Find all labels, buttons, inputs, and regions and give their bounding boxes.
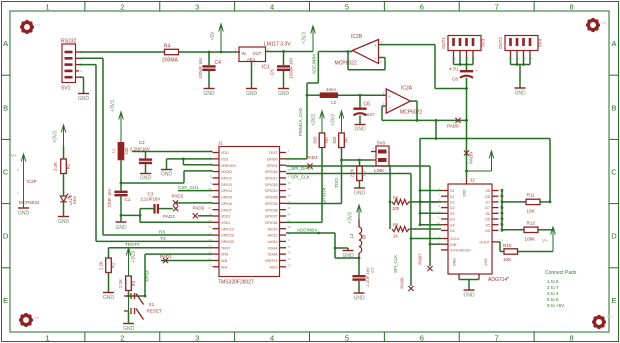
svg-text:TX: TX [160,236,166,241]
svg-text:GND: GND [453,258,457,266]
svg-text:11: 11 [437,216,440,220]
wire S1 to GND [128,311,130,323]
svg-text:22UF 16V: 22UF 16V [107,188,112,207]
svg-text:R6: R6 [344,137,349,143]
inductor L1 220 (ferrite) [112,142,129,160]
svg-text:1: 1 [411,96,413,100]
svg-text:TMS320F28027: TMS320F28027 [218,280,254,286]
svg-text:GND: GND [354,127,366,133]
svg-text:+3V3: +3V3 [302,32,308,44]
wire SPI_CLK to J2 SCLK [410,174,441,240]
capacitor C1 22UF 16V [107,188,131,207]
svg-text:CS#_CH1: CS#_CH1 [178,185,199,190]
svg-text:R5: R5 [324,137,329,143]
svg-text:GND: GND [278,91,290,97]
svg-text:−: − [374,56,377,61]
svg-text:13: 13 [208,206,212,210]
wire R7 to GND [359,181,361,188]
wire +5V rail to IC1 [179,51,241,54]
resistor R10 10K [499,242,554,262]
wire C2 leads [145,152,147,174]
wire L1 to C1 [120,160,123,190]
wire L2 to IC2A input [338,94,386,97]
svg-text:5: 5 [345,333,349,342]
svg-text:VSS: VSS [221,157,229,161]
svg-text:7: 7 [351,45,353,49]
svg-text:1: 1 [45,2,49,11]
capacitor C5 100UF 16V [270,57,294,78]
svg-text:GND: GND [514,91,526,97]
wire R1 to LED1 [63,146,65,196]
wire C7 to GND [358,281,360,293]
svg-text:SV1: SV1 [61,86,71,92]
wire R8/R9 left vertical [389,165,392,229]
svg-text:H3: H3 [607,314,613,319]
svg-text:C1: C1 [125,197,131,202]
note Connect Pads [545,270,577,308]
wire IC2A out to bus [435,120,437,138]
svg-text:R11: R11 [527,193,536,198]
wire VSS1 [140,221,213,223]
svg-text:LM117 3.3V: LM117 3.3V [264,41,291,47]
svg-text:TRST#: TRST# [125,242,140,247]
svg-text:GPIO16: GPIO16 [265,170,278,174]
wire net ADCINB4 vertical [307,52,318,84]
ground GND at R2 [103,293,115,302]
svg-text:2.2K: 2.2K [99,261,104,270]
svg-text:VDD1: VDD1 [221,215,230,219]
svg-text:1mH: 1mH [326,87,336,92]
svg-text:VDD: VDD [463,189,467,197]
ground GND at IC1 [246,89,258,98]
svg-text:H4: H4 [34,315,40,320]
svg-text:S8: S8 [485,189,490,193]
svg-text:GPIO37: GPIO37 [265,215,278,219]
pad PAD2 [172,193,184,205]
svg-text:+3V3: +3V3 [53,131,59,143]
wire TX vertical [79,65,96,242]
svg-text:B: B [3,103,8,112]
svg-text:SPI_CLK: SPI_CLK [291,175,311,180]
supply +3V3 at R5 [311,111,324,133]
ground GND at C6 [354,125,366,133]
svg-text:IC2A: IC2A [401,86,413,92]
svg-text:5 to 6: 5 to 6 [547,297,559,302]
svg-text:VREFHI: VREFHI [265,259,278,263]
voltage regulator IC1 LM117 3.3V [235,41,292,70]
svg-text:+3V3: +3V3 [110,100,116,112]
svg-text:GND: GND [203,91,215,97]
wire IC1 ADJ to GND [251,62,253,89]
svg-text:68: 68 [362,234,367,239]
svg-text:B: B [611,103,616,112]
resistor R6 820 [332,133,349,148]
svg-text:LINK: LINK [374,168,385,173]
svg-text:48: 48 [288,168,292,172]
wire J2 right pin bus [501,189,504,232]
svg-text:GPIO18: GPIO18 [265,183,278,187]
svg-text:6: 6 [420,2,424,11]
supply +3V3 at R1 [53,125,66,146]
svg-text:1K: 1K [393,234,398,239]
mounting hole H3 [592,314,613,329]
svg-text:AIO14: AIO14 [268,227,278,231]
wire to L2 [306,94,320,97]
wire VSS [167,158,213,161]
svg-text:820: 820 [332,136,337,144]
svg-text:8: 8 [569,333,573,342]
svg-text:OUT1: OUT1 [441,37,446,49]
wire C6 leads [359,95,361,124]
svg-text:4: 4 [270,2,274,11]
wire SV1.5 to GND [79,77,84,93]
svg-text:RESET: RESET [147,309,163,314]
svg-text:ADCINB4: ADCINB4 [297,228,317,233]
wire net XRS# [145,254,213,296]
svg-text:46: 46 [288,181,292,185]
svg-text:GPIO7: GPIO7 [221,208,232,212]
svg-text:GND: GND [161,172,173,178]
wire filter node [334,233,361,259]
wire OUT1 node vertical [466,78,468,178]
capacitor C7 2.2UF 16V [352,267,375,287]
svg-text:D8: D8 [485,195,490,199]
wire VDD1 pad6 [198,215,213,217]
svg-text:Connect Pads: Connect Pads [545,270,577,276]
svg-text:GND: GND [123,326,135,332]
svg-text:100: 100 [392,206,400,211]
wire IC2B feedback [348,52,385,70]
svg-text:0.047: 0.047 [363,112,375,117]
resistor R5 820 [313,133,330,148]
supply +3V3 at R3 [126,248,137,276]
svg-text:8: 8 [17,168,19,172]
svg-text:ADJ: ADJ [247,57,255,62]
ground GND at SV1 [78,94,90,103]
supply +3V3 at L1 [110,100,124,142]
wire C4 leads [208,52,210,88]
svg-text:V+: V+ [11,153,17,158]
svg-text:35: 35 [288,251,292,255]
svg-text:23: 23 [500,238,504,242]
svg-text:PAD4: PAD4 [306,155,318,160]
svg-text:GPIO5: GPIO5 [221,196,232,200]
svg-text:C: C [611,168,617,177]
svg-text:E: E [3,296,8,305]
svg-text:100K: 100K [525,237,537,242]
connector SV1 (RS232) [61,39,82,92]
svg-text:16: 16 [208,225,212,229]
svg-text:13: 13 [437,227,441,231]
wire SV4 pins join [511,57,531,66]
svg-text:3: 3 [235,48,237,52]
svg-text:2.2K: 2.2K [53,162,58,171]
mounting hole H1 [20,20,41,34]
svg-text:12: 12 [437,221,441,225]
resistor R4 200MA [162,44,179,64]
svg-text:SCLK: SCLK [450,237,460,241]
wire bus to J2 S2 [419,201,441,204]
svg-text:A06: A06 [221,259,227,263]
svg-text:GND: GND [103,295,115,301]
svg-text:R10: R10 [503,243,512,248]
svg-text:SV3: SV3 [481,38,486,47]
wire IC2B output to ADCINB4 [319,50,353,53]
supply +3V3 at L3 [348,205,362,224]
svg-text:37: 37 [288,238,292,242]
svg-text:3 to 4: 3 to 4 [547,291,559,296]
supply V+ at J2 [465,151,494,172]
svg-text:AIO10: AIO10 [268,240,278,244]
svg-text:3: 3 [383,92,385,96]
svg-text:−: − [388,106,391,111]
wire C7 top lead [358,258,360,275]
svg-text:PAD3: PAD3 [163,214,175,219]
connector SV2 5V0 LINK [371,141,389,174]
wire C3 leads [140,208,173,210]
svg-text:2.2UF16V: 2.2UF16V [141,197,161,202]
svg-text:S1: S1 [450,189,455,193]
wire bus to J2 S4 [419,223,441,226]
resistor R1 2.2K [53,159,71,174]
svg-text:VDDIO: VDDIO [221,170,232,174]
svg-text:GPIO36: GPIO36 [265,208,278,212]
svg-text:C8: C8 [452,77,458,82]
capacitor C6 0.047 [353,102,375,117]
connector SV3 OUT1 [441,36,486,61]
pad PAD6 (left) [193,205,205,218]
svg-text:XRS: XRS [221,253,229,257]
wire IC2A feedback [382,106,417,120]
svg-text:GPIO1: GPIO1 [267,164,278,168]
svg-text:S4: S4 [450,223,455,227]
svg-text:GPIO19: GPIO19 [265,189,278,193]
svg-text:AIO2: AIO2 [269,265,277,269]
svg-text:PAD2: PAD2 [172,193,184,198]
svg-text:2.2K: 2.2K [350,168,355,177]
svg-text:5V0: 5V0 [377,141,386,146]
svg-text:VSS1: VSS1 [221,221,230,225]
ground GND at VSS [161,159,173,178]
svg-text:RX: RX [159,230,165,235]
svg-text:+3V3: +3V3 [348,212,354,224]
wire LINK to TDO [342,159,372,162]
pad PAD9 [464,150,474,163]
svg-text:11: 11 [208,193,211,197]
svg-text:C5: C5 [270,69,275,75]
wire C1 to GND [120,196,123,222]
wire VDDIO to 3V3 rail [121,171,213,183]
wire IC2A output to PAD8 [417,119,468,122]
svg-text:GPIO2: GPIO2 [221,177,232,181]
supply +5V [210,24,223,52]
svg-text:2.2K: 2.2K [118,279,123,288]
supply V+ at R10 [542,227,555,252]
svg-text:+3V3: +3V3 [131,251,137,263]
svg-text:MCP6022: MCP6022 [19,200,40,205]
svg-text:GPIO28: GPIO28 [221,234,234,238]
svg-text:5: 5 [345,2,349,11]
svg-text:RED: RED [72,196,77,205]
svg-text:L3: L3 [349,233,354,238]
wire switch bus horizontal [420,137,550,140]
svg-text:4: 4 [80,69,82,73]
resistor R11 10K [502,193,551,214]
svg-text:MCP6022: MCP6022 [400,110,422,116]
inductor L2 1mH [320,87,338,105]
svg-text:GPIO34: GPIO34 [322,187,327,204]
svg-text:C3: C3 [148,191,154,196]
resistor R12 100K [502,221,554,242]
connector SV4 OUT2 [498,36,543,61]
svg-text:R1: R1 [66,163,71,169]
wire net TX [96,236,213,242]
wire to analog GND [335,248,348,250]
svg-text:D3: D3 [450,218,455,222]
svg-text:C6: C6 [364,102,371,108]
svg-text:A: A [611,39,616,48]
svg-text:4.7U: 4.7U [449,67,458,72]
svg-text:GND: GND [18,211,30,217]
mounting hole H2 [586,18,607,32]
svg-text:6: 6 [381,60,383,64]
wire LED1 to GND [63,202,65,216]
wire net SPI_DATA [286,166,430,171]
svg-text:C7: C7 [370,267,375,273]
svg-text:S5: S5 [485,223,490,227]
wire bus left vertical [419,139,421,225]
svg-text:GPIO6: GPIO6 [221,202,232,206]
svg-text:4: 4 [270,333,274,342]
svg-text:10K: 10K [503,257,512,262]
svg-text:MCP6022: MCP6022 [335,61,357,67]
wire C3 to GND rail [121,209,141,223]
pad PAD4 [306,155,318,169]
capacitor C3 2.2UF16V [141,191,161,213]
svg-text:2 to 7: 2 to 7 [547,285,559,290]
svg-text:C: C [3,168,9,177]
capacitor C8 4.7U [449,67,479,82]
wire J2 to GND [459,280,479,290]
svg-text:8: 8 [569,2,573,11]
svg-text:VRESEN: VRESEN [221,164,236,168]
svg-text:L2: L2 [331,100,337,105]
svg-text:H1: H1 [35,22,41,27]
svg-text:R8: R8 [393,196,399,201]
svg-text:R2: R2 [111,262,116,268]
svg-text:+: + [374,43,377,48]
svg-text:GPIO17: GPIO17 [265,177,278,181]
wire bus to J2 S3 [419,212,441,215]
ground GND at R7 [354,188,366,197]
ground GND at C2 [140,174,152,182]
svg-text:R7: R7 [362,170,367,176]
svg-text:C4: C4 [215,60,222,66]
resistor R7 2.2K [350,166,367,181]
svg-text:3: 3 [195,333,199,342]
svg-text:+5V: +5V [210,31,216,41]
ground GND at S1 [123,324,135,333]
svg-text:200MA: 200MA [162,58,179,64]
svg-text:+3V3: +3V3 [331,114,337,126]
wire SV3 pins join [454,57,474,66]
svg-text:GND: GND [58,219,70,225]
wire GPIO6 pad2 [176,202,213,204]
svg-text:D2: D2 [450,206,455,210]
svg-text:PAD6: PAD6 [193,205,205,210]
svg-text:ADCINB4: ADCINB4 [312,54,317,74]
pad PAD3 [163,206,178,219]
svg-text:42: 42 [288,206,292,210]
svg-text:GPIO26: GPIO26 [265,196,278,200]
svg-text:D7: D7 [485,206,490,210]
svg-text:VDDA: VDDA [268,253,278,257]
wire net ADCINB4 to filter [286,228,335,235]
capacitor C4 100UF 16V [198,57,221,78]
svg-text:OUT2: OUT2 [498,37,503,49]
svg-text:DIN: DIN [450,243,457,247]
wire R2 top lead [108,248,110,258]
wire IC2B input from OUT1 node [379,45,468,90]
svg-text:8 to +5V: 8 to +5V [547,303,565,308]
svg-text:H2: H2 [601,20,607,25]
mounting hole H4 [19,313,40,327]
wire SV1.1 to R4 [79,51,165,53]
op-amp IC2A MCP6022 [383,86,423,116]
svg-text:7: 7 [495,333,499,342]
svg-text:TRST: TRST [221,246,231,250]
svg-text:PAD6: PAD6 [400,277,405,289]
wire net TDO [286,148,343,204]
svg-text:S6: S6 [485,212,490,216]
svg-text:45: 45 [288,187,292,191]
svg-text:GND: GND [463,293,475,299]
svg-text:SYNC/RESET: SYNC/RESET [450,248,471,252]
svg-text:GPIO0: GPIO0 [267,157,278,161]
ground GND at C5 [278,89,290,98]
resistor R8 100 [392,196,441,212]
svg-text:820: 820 [313,136,318,144]
svg-text:VSS: VSS [484,258,488,266]
pad PAD8 [447,118,461,129]
svg-text:GND: GND [342,253,354,259]
wire IC1 OUT 3V3 rail [266,50,314,53]
svg-text:3: 3 [195,2,199,11]
svg-text:PAD8: PAD8 [447,124,459,129]
wire net RX [103,230,213,236]
svg-text:6: 6 [420,333,424,342]
ground GND at C4 [203,89,215,98]
svg-text:2: 2 [120,2,124,11]
svg-text:33: 33 [288,263,292,267]
svg-text:J1: J1 [218,141,223,146]
svg-text:39: 39 [288,225,292,229]
svg-text:A04: A04 [221,265,227,269]
svg-text:J2: J2 [470,178,475,183]
wire net TRST# [109,242,213,248]
switch S1 RESET [124,293,162,320]
wire RX vertical [79,58,103,235]
wire DIN to PAD7 [418,244,431,266]
svg-text:10K: 10K [527,209,536,214]
svg-text:1 to 6: 1 to 6 [547,279,559,284]
svg-text:GND: GND [246,91,258,97]
svg-text:TEST: TEST [268,151,278,155]
wire R7 top lead [359,160,361,166]
wire bus right vertical [549,139,551,202]
svg-text:OUT: OUT [253,51,262,56]
wire SCLK to PAD6 [393,239,411,287]
